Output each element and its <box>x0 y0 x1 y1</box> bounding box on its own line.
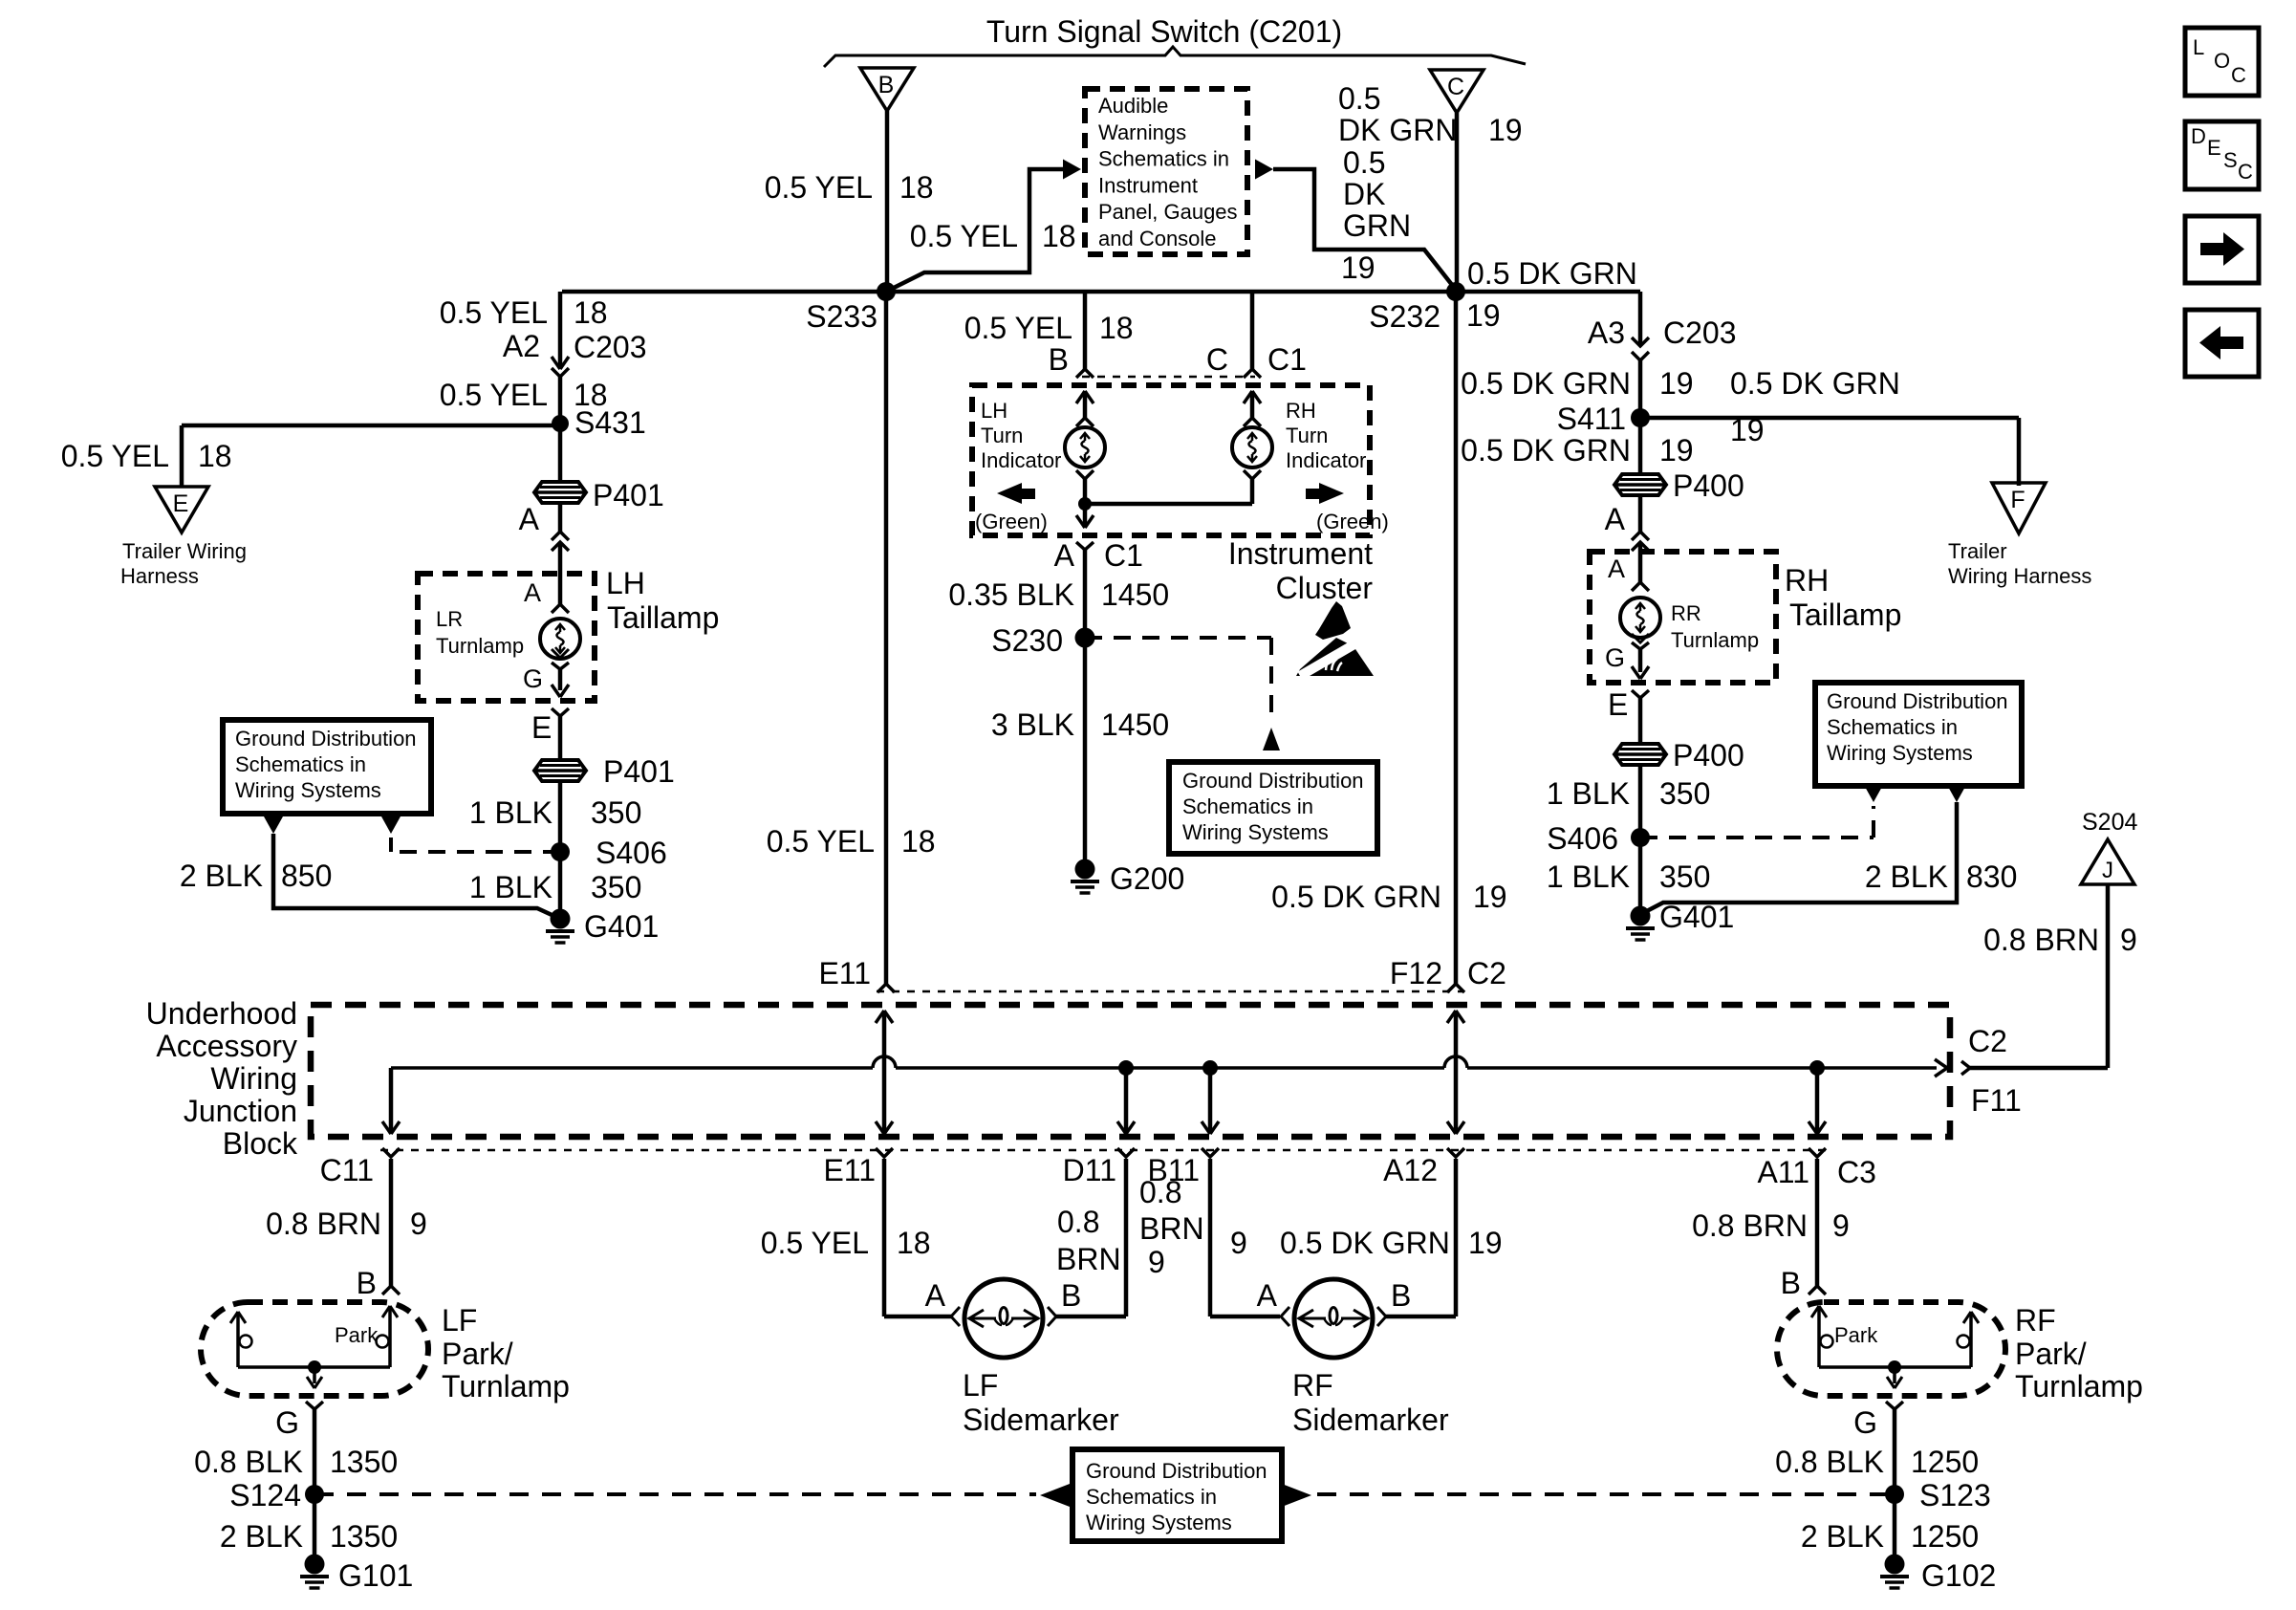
svg-text:C1: C1 <box>1104 538 1143 573</box>
svg-text:0.8: 0.8 <box>1057 1205 1099 1239</box>
svg-text:DK: DK <box>1343 177 1385 211</box>
svg-text:E: E <box>173 490 189 517</box>
svg-text:Park/: Park/ <box>442 1337 513 1371</box>
svg-text:A12: A12 <box>1383 1153 1438 1187</box>
svg-text:C2: C2 <box>1467 956 1506 990</box>
svg-text:C: C <box>1447 74 1464 100</box>
svg-text:Audible: Audible <box>1098 94 1168 118</box>
svg-text:S232: S232 <box>1369 299 1440 334</box>
svg-text:A: A <box>524 578 541 607</box>
svg-text:LF: LF <box>963 1368 998 1403</box>
svg-text:Sidemarker: Sidemarker <box>963 1403 1119 1437</box>
svg-text:BRN: BRN <box>1056 1242 1121 1276</box>
svg-text:0.8 BRN: 0.8 BRN <box>266 1207 381 1241</box>
svg-text:19: 19 <box>1488 113 1523 147</box>
svg-text:18: 18 <box>574 295 608 330</box>
svg-text:S124: S124 <box>229 1478 301 1512</box>
svg-text:P400: P400 <box>1673 468 1744 503</box>
svg-text:19: 19 <box>1730 413 1765 447</box>
svg-text:LH: LH <box>981 399 1007 423</box>
svg-text:0.8 BRN: 0.8 BRN <box>1692 1208 1808 1243</box>
svg-text:LH: LH <box>606 566 645 600</box>
svg-text:Ground Distribution: Ground Distribution <box>1827 689 2008 713</box>
svg-text:(Green): (Green) <box>975 510 1048 533</box>
svg-text:S230: S230 <box>991 623 1063 658</box>
svg-text:1 BLK: 1 BLK <box>1547 776 1630 811</box>
svg-text:Block: Block <box>223 1126 298 1161</box>
svg-text:D11: D11 <box>1063 1153 1116 1187</box>
svg-text:0.5 YEL: 0.5 YEL <box>440 295 548 330</box>
svg-text:2 BLK: 2 BLK <box>220 1519 303 1554</box>
svg-text:350: 350 <box>591 870 641 904</box>
svg-text:S406: S406 <box>596 836 667 870</box>
svg-text:S204: S204 <box>2082 809 2137 836</box>
svg-text:S406: S406 <box>1547 821 1618 856</box>
svg-text:0.5 YEL: 0.5 YEL <box>767 824 875 859</box>
svg-text:Underhood: Underhood <box>146 996 297 1031</box>
svg-text:LF: LF <box>442 1303 477 1338</box>
svg-text:Ground Distribution: Ground Distribution <box>1086 1459 1267 1483</box>
svg-text:DK GRN: DK GRN <box>1338 113 1457 147</box>
svg-text:Park: Park <box>1834 1323 1878 1347</box>
svg-text:18: 18 <box>198 439 232 473</box>
svg-text:19: 19 <box>1473 880 1507 914</box>
svg-text:0.35 BLK: 0.35 BLK <box>948 577 1074 612</box>
svg-text:0.5 DK GRN: 0.5 DK GRN <box>1461 433 1631 468</box>
svg-text:Cluster: Cluster <box>1276 571 1374 605</box>
svg-text:830: 830 <box>1966 859 2017 894</box>
svg-text:A: A <box>1605 502 1626 536</box>
svg-text:Wiring: Wiring <box>210 1061 297 1096</box>
svg-text:Wiring Systems: Wiring Systems <box>1086 1511 1232 1534</box>
svg-text:3 BLK: 3 BLK <box>991 707 1074 742</box>
svg-text:RF: RF <box>1292 1368 1333 1403</box>
svg-text:2 BLK: 2 BLK <box>1801 1519 1884 1554</box>
svg-text:B: B <box>1049 342 1069 377</box>
svg-text:G401: G401 <box>1659 900 1734 934</box>
svg-text:1350: 1350 <box>330 1445 398 1479</box>
svg-text:0.8 BRN: 0.8 BRN <box>1983 923 2099 957</box>
svg-text:18: 18 <box>901 824 936 859</box>
svg-text:2 BLK: 2 BLK <box>180 859 263 893</box>
svg-text:Schematics in: Schematics in <box>1182 794 1313 818</box>
svg-text:A2: A2 <box>503 329 540 363</box>
svg-text:Turnlamp: Turnlamp <box>442 1369 570 1403</box>
svg-text:Indicator: Indicator <box>1286 448 1366 472</box>
svg-text:0.5 YEL: 0.5 YEL <box>765 170 873 205</box>
svg-text:GRN: GRN <box>1343 208 1411 243</box>
svg-text:9: 9 <box>1148 1245 1165 1279</box>
svg-text:19: 19 <box>1468 1226 1503 1260</box>
svg-text:A: A <box>1257 1278 1278 1313</box>
svg-text:0.5 YEL: 0.5 YEL <box>61 439 169 473</box>
svg-text:E11: E11 <box>818 956 871 990</box>
svg-text:0.8 BLK: 0.8 BLK <box>1775 1445 1884 1479</box>
svg-text:1 BLK: 1 BLK <box>1547 859 1630 894</box>
svg-text:C2: C2 <box>1968 1024 2007 1058</box>
svg-text:Taillamp: Taillamp <box>607 600 719 635</box>
svg-text:D: D <box>2191 124 2206 148</box>
svg-text:G101: G101 <box>338 1558 413 1593</box>
svg-text:B: B <box>1781 1266 1801 1300</box>
svg-text:S123: S123 <box>1919 1478 1991 1512</box>
svg-text:0.5 YEL: 0.5 YEL <box>964 311 1072 345</box>
svg-text:350: 350 <box>591 795 641 830</box>
svg-text:RR: RR <box>1671 601 1701 625</box>
svg-text:A: A <box>1054 538 1075 573</box>
svg-text:E11: E11 <box>823 1153 876 1187</box>
svg-text:L: L <box>2193 35 2204 59</box>
svg-text:S: S <box>2223 148 2238 172</box>
svg-text:(Green): (Green) <box>1316 510 1389 533</box>
svg-text:850: 850 <box>281 859 332 893</box>
svg-text:E: E <box>531 710 552 745</box>
svg-text:RH: RH <box>1286 399 1316 423</box>
svg-text:J: J <box>2102 858 2113 883</box>
svg-text:0.5 DK GRN: 0.5 DK GRN <box>1461 366 1631 401</box>
svg-text:18: 18 <box>1042 219 1076 253</box>
svg-text:350: 350 <box>1659 859 1710 894</box>
svg-text:Turnlamp: Turnlamp <box>436 634 524 658</box>
svg-text:Wiring Systems: Wiring Systems <box>1827 741 1973 765</box>
svg-text:C: C <box>1206 342 1228 377</box>
svg-text:G401: G401 <box>584 909 659 944</box>
svg-text:Turnlamp: Turnlamp <box>2015 1369 2143 1403</box>
svg-text:9: 9 <box>1832 1208 1850 1243</box>
svg-text:F11: F11 <box>1971 1083 2022 1118</box>
svg-text:Turn: Turn <box>981 424 1023 447</box>
svg-text:Panel, Gauges: Panel, Gauges <box>1098 200 1238 224</box>
svg-text:19: 19 <box>1341 250 1375 285</box>
svg-text:P401: P401 <box>593 478 664 512</box>
svg-text:0.5 DK GRN: 0.5 DK GRN <box>1280 1226 1450 1260</box>
svg-text:C11: C11 <box>320 1153 374 1187</box>
svg-text:G: G <box>1853 1405 1877 1440</box>
svg-text:A: A <box>1608 555 1625 583</box>
svg-text:0.5 YEL: 0.5 YEL <box>761 1226 869 1260</box>
svg-text:19: 19 <box>1466 298 1501 333</box>
svg-text:Trailer: Trailer <box>1948 539 2007 563</box>
svg-text:Park/: Park/ <box>2015 1337 2087 1371</box>
svg-text:Wiring Harness: Wiring Harness <box>1948 564 2091 588</box>
svg-text:A3: A3 <box>1588 315 1625 350</box>
svg-text:Turnlamp: Turnlamp <box>1671 628 1759 652</box>
svg-text:0.8: 0.8 <box>1139 1175 1181 1209</box>
svg-text:G: G <box>523 664 543 693</box>
svg-text:S233: S233 <box>806 299 877 334</box>
svg-text:C3: C3 <box>1837 1155 1876 1189</box>
svg-text:0.5 DK GRN: 0.5 DK GRN <box>1730 366 1900 401</box>
svg-text:9: 9 <box>2120 923 2137 957</box>
svg-text:Warnings: Warnings <box>1098 120 1186 144</box>
svg-text:0.5 YEL: 0.5 YEL <box>440 378 548 412</box>
svg-text:A: A <box>519 502 540 536</box>
svg-text:Harness: Harness <box>120 564 199 588</box>
svg-text:RF: RF <box>2015 1303 2056 1338</box>
svg-text:2 BLK: 2 BLK <box>1865 859 1948 894</box>
svg-text:O: O <box>2214 49 2230 73</box>
svg-text:1 BLK: 1 BLK <box>469 870 552 904</box>
svg-text:19: 19 <box>1659 433 1694 468</box>
svg-text:0.5 DK GRN: 0.5 DK GRN <box>1271 880 1441 914</box>
svg-text:0.5: 0.5 <box>1338 81 1380 116</box>
svg-text:C1: C1 <box>1267 342 1307 377</box>
svg-text:B: B <box>1061 1278 1081 1313</box>
svg-text:0.5 YEL: 0.5 YEL <box>910 219 1018 253</box>
svg-text:Ground Distribution: Ground Distribution <box>1182 769 1364 793</box>
svg-text:0.5 DK GRN: 0.5 DK GRN <box>1467 256 1637 291</box>
svg-text:A: A <box>925 1278 946 1313</box>
svg-text:and Console: and Console <box>1098 227 1217 250</box>
svg-text:A11: A11 <box>1757 1155 1809 1189</box>
svg-text:Wiring Systems: Wiring Systems <box>1182 820 1329 844</box>
svg-text:E: E <box>1608 687 1628 722</box>
svg-text:C: C <box>2231 63 2246 87</box>
svg-text:B: B <box>1391 1278 1411 1313</box>
svg-text:P401: P401 <box>603 754 675 789</box>
svg-text:G200: G200 <box>1110 861 1184 896</box>
svg-text:Instrument: Instrument <box>1098 173 1198 197</box>
svg-text:Indicator: Indicator <box>981 448 1061 472</box>
svg-text:Junction: Junction <box>184 1094 297 1128</box>
svg-text:F: F <box>2010 487 2025 513</box>
svg-text:1450: 1450 <box>1101 577 1169 612</box>
svg-text:19: 19 <box>1659 366 1694 401</box>
svg-text:B: B <box>357 1266 377 1300</box>
svg-text:350: 350 <box>1659 776 1710 811</box>
svg-text:18: 18 <box>1099 311 1134 345</box>
svg-text:18: 18 <box>897 1226 931 1260</box>
svg-text:C203: C203 <box>574 330 647 364</box>
svg-text:1 BLK: 1 BLK <box>469 795 552 830</box>
svg-text:BRN: BRN <box>1139 1211 1204 1246</box>
svg-text:LR: LR <box>436 607 463 631</box>
svg-text:1250: 1250 <box>1911 1519 1979 1554</box>
svg-text:F12: F12 <box>1390 956 1442 990</box>
svg-text:RH: RH <box>1785 563 1829 598</box>
svg-text:Ground Distribution: Ground Distribution <box>235 727 417 751</box>
svg-text:G: G <box>1605 643 1625 672</box>
svg-text:Schematics in: Schematics in <box>235 752 366 776</box>
svg-text:G102: G102 <box>1921 1558 1996 1593</box>
svg-text:Taillamp: Taillamp <box>1789 598 1901 632</box>
svg-text:0.8 BLK: 0.8 BLK <box>194 1445 303 1479</box>
svg-text:E: E <box>2207 136 2221 160</box>
svg-text:Sidemarker: Sidemarker <box>1292 1403 1449 1437</box>
svg-text:1250: 1250 <box>1911 1445 1979 1479</box>
svg-text:Turn: Turn <box>1286 424 1328 447</box>
svg-text:S411: S411 <box>1557 402 1626 436</box>
svg-text:1350: 1350 <box>330 1519 398 1554</box>
svg-text:9: 9 <box>1230 1226 1247 1260</box>
svg-text:1450: 1450 <box>1101 707 1169 742</box>
svg-text:G: G <box>275 1405 299 1440</box>
svg-text:Park: Park <box>335 1323 379 1347</box>
svg-text:Trailer Wiring: Trailer Wiring <box>122 539 247 563</box>
svg-text:C: C <box>2238 160 2253 184</box>
svg-text:Instrument: Instrument <box>1228 536 1373 571</box>
svg-text:Wiring Systems: Wiring Systems <box>235 778 381 802</box>
svg-text:9: 9 <box>410 1207 427 1241</box>
svg-text:Accessory: Accessory <box>156 1029 297 1063</box>
svg-text:Schematics in: Schematics in <box>1827 715 1958 739</box>
svg-text:P400: P400 <box>1673 738 1744 772</box>
svg-text:0.5: 0.5 <box>1343 145 1385 180</box>
svg-text:C203: C203 <box>1663 315 1737 350</box>
svg-text:Schematics in: Schematics in <box>1098 147 1229 171</box>
svg-text:Schematics in: Schematics in <box>1086 1485 1217 1509</box>
svg-text:S431: S431 <box>574 405 646 440</box>
svg-text:Turn Signal Switch (C201): Turn Signal Switch (C201) <box>986 14 1342 49</box>
svg-text:18: 18 <box>899 170 934 205</box>
svg-text:B: B <box>878 72 895 98</box>
